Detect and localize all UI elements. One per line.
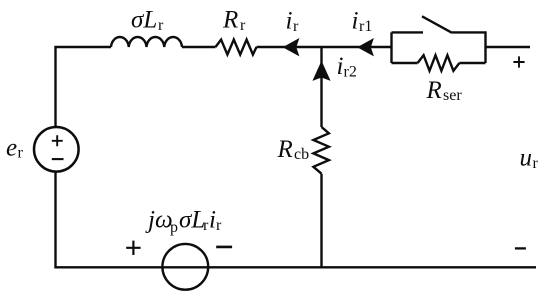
svg-text:r: r (216, 217, 222, 234)
svg-text:r: r (293, 18, 299, 35)
svg-text:r: r (158, 17, 164, 34)
svg-text:p: p (170, 219, 178, 236)
svg-text:r: r (18, 144, 24, 161)
svg-text:σL: σL (179, 207, 205, 234)
svg-text:jω: jω (145, 207, 173, 234)
svg-text:cb: cb (294, 146, 309, 163)
svg-text:u: u (520, 144, 533, 171)
svg-text:i: i (352, 8, 359, 35)
svg-text:r2: r2 (344, 64, 357, 81)
svg-text:R: R (222, 7, 238, 34)
svg-text:σL: σL (131, 7, 157, 34)
svg-text:r1: r1 (359, 18, 372, 35)
svg-text:i: i (209, 207, 216, 234)
svg-text:e: e (6, 134, 17, 161)
svg-text:i: i (337, 53, 344, 80)
svg-text:ser: ser (443, 87, 462, 104)
svg-text:r: r (533, 155, 539, 172)
svg-text:i: i (286, 8, 293, 35)
svg-text:r: r (240, 17, 246, 34)
svg-text:R: R (426, 77, 442, 104)
svg-text:R: R (277, 136, 293, 163)
